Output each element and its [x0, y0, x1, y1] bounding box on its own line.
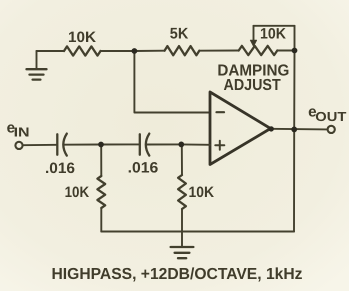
svg-text:5K: 5K [170, 26, 189, 43]
ground G2 [171, 247, 194, 258]
wire wiper box top [254, 25, 295, 27]
wire eIN to C1 [23, 144, 57, 146]
wire node A down to minus input [134, 51, 210, 113]
wire C2 to node C [146, 143, 181, 145]
svg-text:HIGHPASS, +12DB/OCTAVE, 1kHz: HIGHPASS, +12DB/OCTAVE, 1kHz [52, 266, 303, 283]
resistor R4 10K [178, 175, 186, 209]
terminal eIN circle [15, 142, 22, 149]
wire node B to C2 [101, 143, 140, 145]
svg-text:OUT: OUT [315, 109, 346, 124]
wire node B down to R3 [100, 145, 102, 177]
op-amp U1 [210, 92, 271, 165]
svg-text:10K: 10K [65, 184, 90, 201]
wire R2 to potentiometer [199, 50, 238, 52]
junction pot-rail dot [292, 48, 298, 54]
svg-text:10K: 10K [189, 184, 215, 201]
capacitor C1 [57, 134, 67, 156]
plus sign [215, 141, 224, 150]
svg-text:.016: .016 [128, 160, 159, 177]
junction output-rail dot [291, 126, 297, 132]
label eOUT [308, 104, 346, 124]
potentiometer R5 10K body [239, 46, 278, 55]
junction node C dot [178, 142, 184, 148]
right rail wire (pot node to output node to bottom) [293, 51, 296, 232]
wire R1 to node A [101, 50, 135, 52]
wire node C to plus input [181, 143, 210, 145]
wire node A to R2 [134, 50, 164, 52]
wiper arrowhead [250, 40, 256, 46]
svg-text:ADJUST: ADJUST [224, 77, 281, 94]
terminal eOUT circle [328, 126, 335, 133]
svg-text:IN: IN [14, 125, 30, 140]
wire op-amp output [271, 128, 328, 131]
resistor R2 5K [165, 46, 200, 55]
label eIN [7, 119, 30, 139]
junction op-amp output dot [269, 126, 274, 131]
wire R4 to ground G2 [181, 209, 183, 247]
wiper wire of R5 [253, 26, 255, 41]
wire pot to right rail [277, 50, 294, 52]
wire node C down to R4 [181, 144, 183, 175]
wire box right side [294, 26, 296, 51]
ground G1 (top left) [27, 51, 47, 80]
minus sign [217, 111, 225, 113]
junction node B dot [98, 142, 104, 148]
resistor R3 10K [97, 176, 105, 208]
wire C1 to node B [63, 144, 101, 146]
svg-text:10K: 10K [68, 29, 96, 46]
svg-text:10K: 10K [260, 25, 286, 42]
wire ground to R1 [37, 50, 65, 52]
svg-text:.016: .016 [45, 160, 75, 177]
junction node A dot [132, 48, 138, 54]
capacitor C2 [140, 134, 150, 156]
wire R3 to bottom rail [100, 208, 102, 232]
resistor R1 10K [64, 46, 101, 55]
bottom feedback rail wire [101, 231, 294, 233]
